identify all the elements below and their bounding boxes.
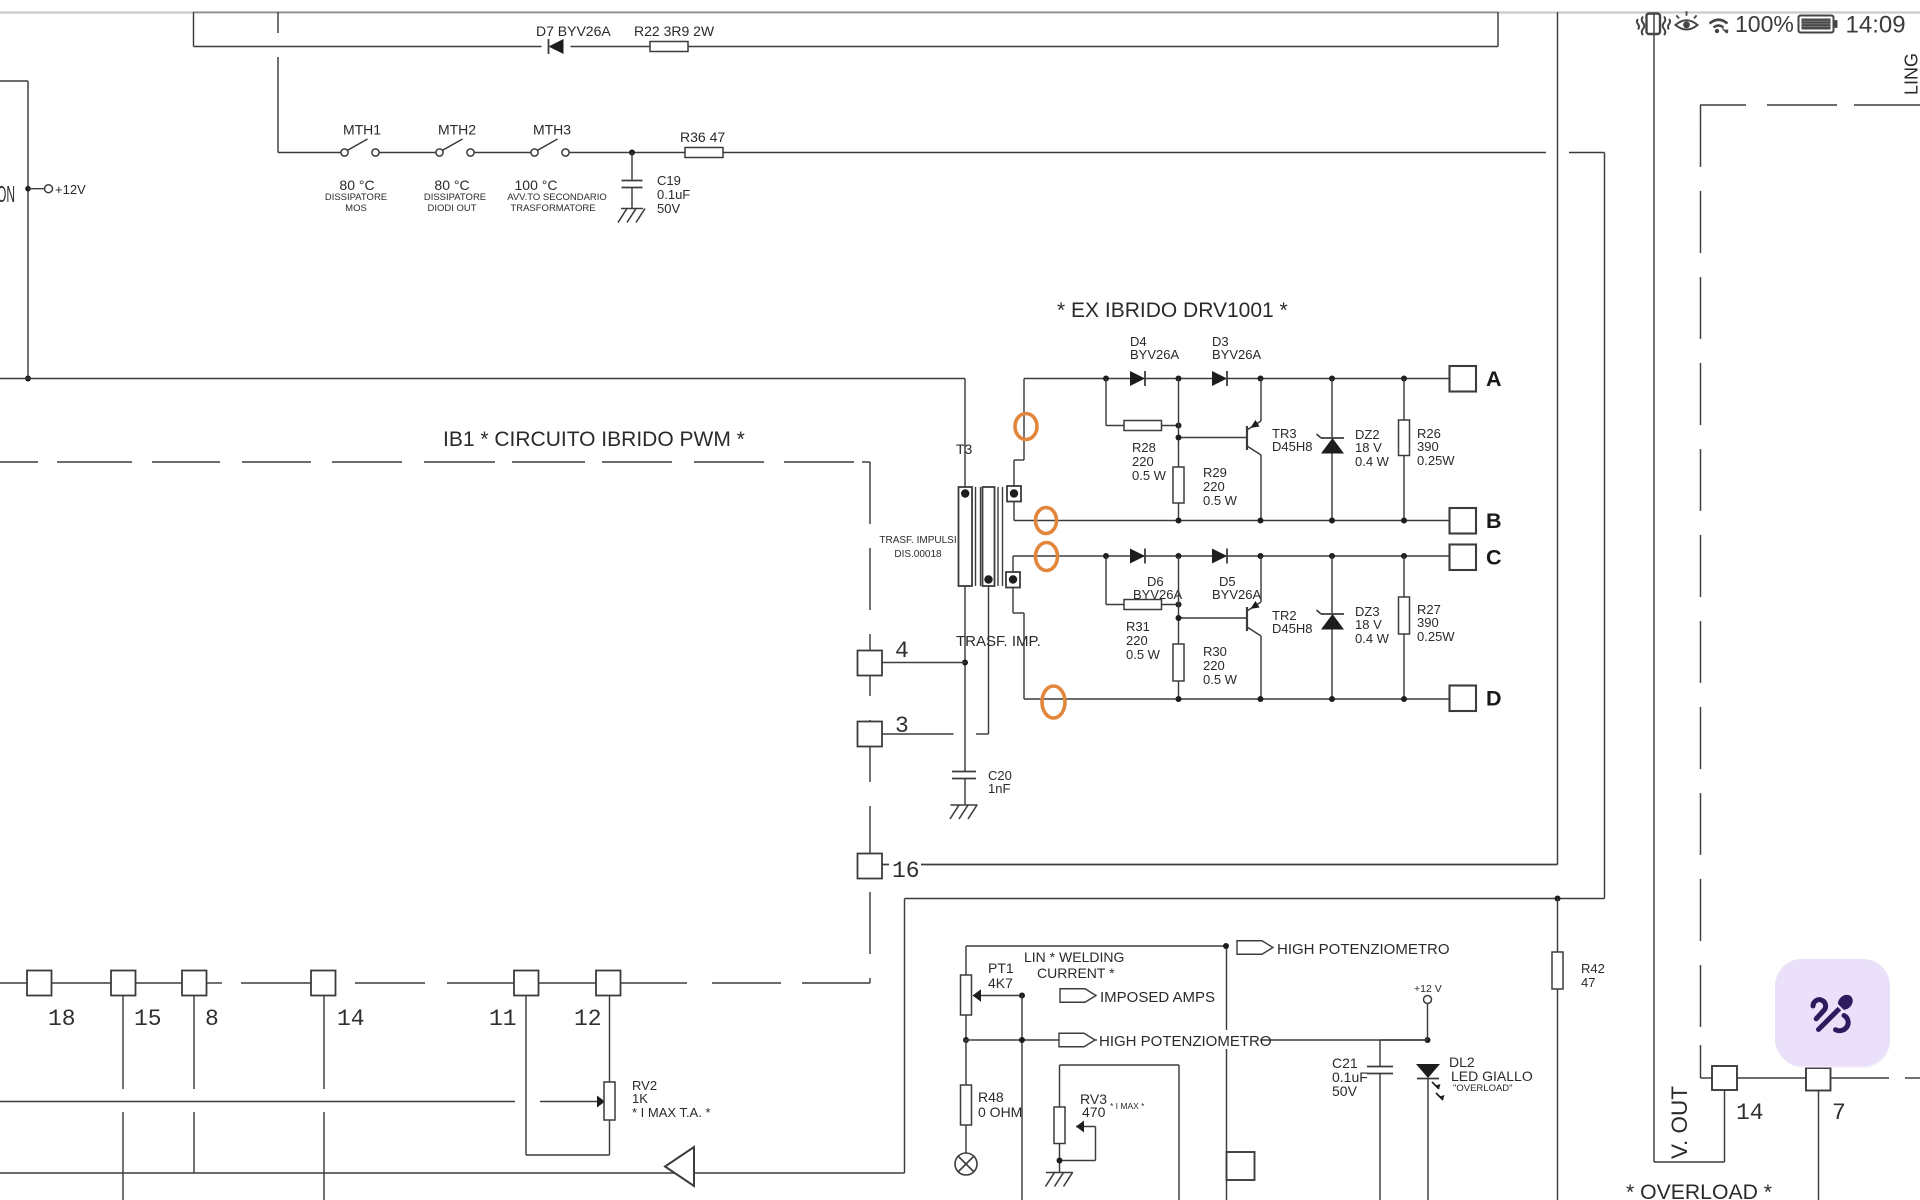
svg-text:8: 8 (205, 1006, 219, 1032)
svg-text:BYV26A: BYV26A (1130, 347, 1179, 362)
svg-text:14:09: 14:09 (1846, 12, 1906, 39)
svg-text:220: 220 (1203, 479, 1225, 494)
svg-text:HIGH POTENZIOMETRO: HIGH POTENZIOMETRO (1277, 941, 1450, 958)
svg-text:R30: R30 (1203, 644, 1227, 659)
svg-text:LIN * WELDING: LIN * WELDING (1024, 949, 1124, 965)
svg-text:1nF: 1nF (988, 781, 1010, 796)
svg-text:BYV26A: BYV26A (1212, 587, 1261, 602)
svg-text:MTH3: MTH3 (533, 122, 571, 138)
svg-text:100 °C: 100 °C (515, 177, 558, 193)
svg-text:80 °C: 80 °C (434, 177, 469, 193)
svg-text:R29: R29 (1203, 465, 1227, 480)
svg-text:DISSIPATORE: DISSIPATORE (325, 192, 387, 203)
svg-text:ON: ON (0, 181, 15, 207)
svg-text:"OVERLOAD": "OVERLOAD" (1453, 1083, 1513, 1094)
svg-text:C19: C19 (657, 173, 681, 188)
svg-text:0.4 W: 0.4 W (1355, 631, 1390, 646)
svg-text:100%: 100% (1735, 11, 1794, 37)
svg-text:50V: 50V (657, 201, 680, 216)
svg-text:DISSIPATORE: DISSIPATORE (424, 192, 486, 203)
svg-text:16: 16 (892, 858, 920, 884)
svg-text:IMPOSED AMPS: IMPOSED AMPS (1100, 989, 1215, 1006)
svg-text:LING: LING (1902, 53, 1920, 95)
svg-text:80 °C: 80 °C (339, 177, 374, 193)
svg-text:R22 3R9 2W: R22 3R9 2W (634, 23, 715, 39)
svg-text:0.4 W: 0.4 W (1355, 454, 1390, 469)
svg-text:390: 390 (1417, 439, 1439, 454)
svg-text:R31: R31 (1126, 619, 1150, 634)
svg-text:TRASFORMATORE: TRASFORMATORE (510, 203, 595, 214)
svg-text:14: 14 (337, 1006, 365, 1032)
svg-text:DIODI OUT: DIODI OUT (427, 203, 476, 214)
svg-text:DIS.00018: DIS.00018 (894, 549, 942, 560)
svg-text:IB1 * CIRCUITO IBRIDO PWM *: IB1 * CIRCUITO IBRIDO PWM * (443, 428, 745, 451)
svg-text:4: 4 (895, 638, 909, 664)
svg-text:PT1: PT1 (988, 960, 1014, 976)
svg-text:15: 15 (134, 1006, 162, 1032)
svg-text:220: 220 (1132, 454, 1154, 469)
svg-text:4K7: 4K7 (988, 975, 1013, 991)
svg-text:D7 BYV26A: D7 BYV26A (536, 23, 611, 39)
svg-text:AVV.TO SECONDARIO: AVV.TO SECONDARIO (507, 192, 607, 203)
svg-text:18: 18 (48, 1006, 76, 1032)
svg-text:0.1uF: 0.1uF (657, 187, 690, 202)
svg-text:MTH1: MTH1 (343, 122, 381, 138)
svg-text:C: C (1486, 546, 1502, 570)
svg-text:7: 7 (1832, 1100, 1846, 1126)
svg-text:12: 12 (574, 1006, 602, 1032)
svg-text:TRASF. IMP.: TRASF. IMP. (956, 633, 1041, 650)
svg-text:* I MAX *: * I MAX * (1110, 1101, 1145, 1111)
svg-text:0 OHM: 0 OHM (978, 1104, 1022, 1120)
svg-text:B: B (1486, 509, 1502, 533)
svg-text:R48: R48 (978, 1089, 1004, 1105)
svg-text:0.5 W: 0.5 W (1126, 647, 1161, 662)
svg-text:BYV26A: BYV26A (1212, 347, 1261, 362)
svg-text:R42: R42 (1581, 961, 1605, 976)
svg-text:0.5 W: 0.5 W (1132, 468, 1167, 483)
svg-text:* OVERLOAD *: * OVERLOAD * (1626, 1181, 1772, 1200)
svg-text:MOS: MOS (345, 203, 367, 214)
svg-text:D45H8: D45H8 (1272, 439, 1312, 454)
svg-text:18 V: 18 V (1355, 440, 1382, 455)
svg-text:220: 220 (1126, 633, 1148, 648)
svg-text:V. OUT: V. OUT (1667, 1086, 1692, 1159)
svg-text:220: 220 (1203, 658, 1225, 673)
svg-text:A: A (1486, 367, 1502, 391)
svg-text:D45H8: D45H8 (1272, 621, 1312, 636)
svg-text:0.5 W: 0.5 W (1203, 672, 1238, 687)
svg-text:18 V: 18 V (1355, 617, 1382, 632)
svg-text:TRASF. IMPULSI: TRASF. IMPULSI (879, 535, 956, 546)
svg-text:+12 V: +12 V (1414, 983, 1442, 995)
svg-text:50V: 50V (1332, 1083, 1358, 1099)
svg-text:390: 390 (1417, 615, 1439, 630)
svg-text:LED GIALLO: LED GIALLO (1451, 1068, 1533, 1084)
svg-text:0.5 W: 0.5 W (1203, 493, 1238, 508)
svg-text:R36 47: R36 47 (680, 129, 725, 145)
svg-text:14: 14 (1736, 1100, 1764, 1126)
svg-text:11: 11 (489, 1006, 517, 1032)
svg-text:* I MAX T.A. *: * I MAX T.A. * (632, 1105, 711, 1120)
svg-text:MTH2: MTH2 (438, 122, 476, 138)
svg-text:R28: R28 (1132, 440, 1156, 455)
svg-text:0.25W: 0.25W (1417, 453, 1455, 468)
svg-text:3: 3 (895, 713, 909, 739)
svg-text:HIGH POTENZIOMETRO: HIGH POTENZIOMETRO (1099, 1033, 1272, 1050)
svg-text:0.25W: 0.25W (1417, 629, 1455, 644)
svg-text:+12V: +12V (55, 182, 86, 197)
svg-text:470: 470 (1082, 1104, 1106, 1120)
svg-text:1K: 1K (632, 1091, 648, 1106)
svg-text:D: D (1486, 687, 1502, 711)
svg-text:CURRENT *: CURRENT * (1037, 965, 1115, 981)
svg-text:* EX IBRIDO DRV1001 *: * EX IBRIDO DRV1001 * (1057, 299, 1288, 322)
svg-text:47: 47 (1581, 975, 1595, 990)
